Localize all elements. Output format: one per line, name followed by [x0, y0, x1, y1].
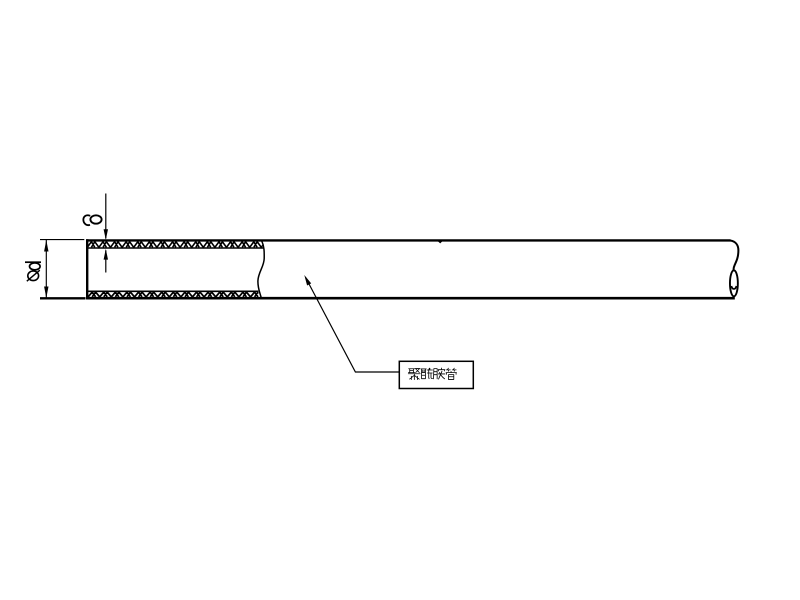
- dim delta: lower stem: [105, 250, 107, 272]
- tube left end edge: [86, 239, 88, 299]
- label delta: tail hook: [83, 215, 90, 225]
- dim Od: lower arrowhead: [44, 287, 48, 299]
- section break wavy line: [258, 240, 264, 298]
- tube right end break curve: [730, 241, 738, 271]
- tube right end outer bore ellipse: [730, 270, 738, 296]
- tube right end inner bore arc: [731, 286, 736, 289]
- label text hanzi strokes: [408, 368, 456, 380]
- label Od: O slash: [27, 270, 40, 281]
- dim delta: upper stem: [105, 194, 107, 239]
- dim Od: dimension line: [45, 240, 47, 298]
- tube bottom outline: [86, 297, 735, 300]
- label delta: bowl: [90, 215, 101, 223]
- label Od: d bowl: [30, 263, 41, 270]
- dim Od: top extension line: [40, 239, 84, 241]
- hanzi AN: [433, 368, 445, 379]
- leader arrowhead: [304, 275, 311, 286]
- label box: [399, 361, 473, 388]
- hanzi XIAN: [421, 368, 433, 378]
- tube top outline: [86, 239, 730, 241]
- dim delta: lower arrowhead: [104, 249, 108, 260]
- dim Od: upper arrowhead: [44, 240, 48, 252]
- dim Od: bottom extension line: [40, 297, 86, 299]
- leader line: [306, 278, 400, 373]
- small nick on top line: [438, 241, 443, 243]
- bottom wall inner line: [88, 290, 258, 292]
- label Od: O circle: [28, 271, 39, 281]
- hanzi JU: [408, 369, 420, 380]
- top wall inner line: [88, 247, 264, 249]
- hanzi GUAN: [446, 368, 456, 379]
- dim delta: upper arrowhead: [104, 229, 108, 240]
- label Od: d stem: [25, 261, 41, 263]
